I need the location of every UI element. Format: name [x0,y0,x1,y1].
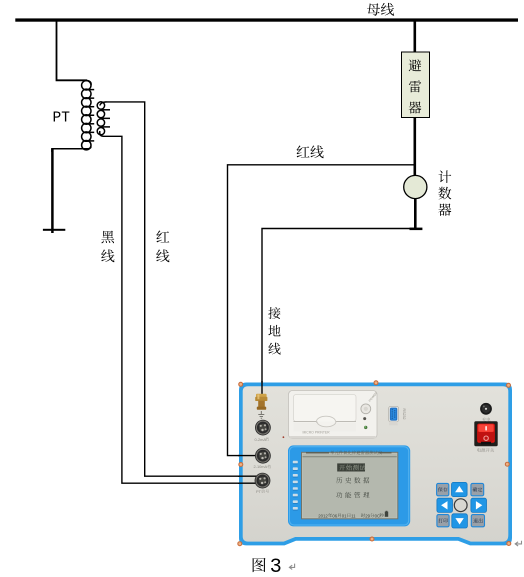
svg-text:PT: PT [53,111,71,127]
label 避雷器 [409,59,422,113]
ground mark under terminal [258,411,264,418]
terminal 0-2mA [255,420,271,436]
indicator dot [283,436,285,438]
wire red 红线 (counter top junction to 2-10mA terminal) [228,165,415,456]
LCD menu item 功能管理 [336,492,369,498]
LCD menu item 历史数据 [336,477,369,483]
PT transformer primary winding [82,80,95,149]
svg-text:11: 11 [351,513,356,518]
PT transformer secondary winding [97,102,110,137]
wire PT primary to ground [52,149,88,233]
counter bottom stub [410,228,423,231]
power switch 电源开关 [474,421,497,446]
wire red (PT secondary top to PT信号 terminal) [106,102,259,476]
wire arrester to counter [413,118,416,177]
label 0-2mA档 [255,437,269,442]
svg-text:3: 3 [270,556,282,577]
LCD menu item selected 开始测试 [337,463,366,471]
tester instrument panel [239,383,512,546]
svg-text:RS232: RS232 [402,409,406,420]
wire ground 接地线 (counter bottom to ground terminal) [262,229,414,395]
svg-text:06: 06 [332,513,337,518]
counter 计数器 [404,175,427,198]
svg-text:2012: 2012 [318,513,328,518]
caption 图 3 [253,556,282,577]
paragraph mark after caption [289,564,294,570]
svg-text:PT: PT [256,489,262,494]
LCD status line (date/time) [318,511,388,519]
svg-text:0-2mA: 0-2mA [255,437,267,442]
keypad [437,482,487,528]
wire black (PT secondary bottom to PT信号 terminal) [103,136,259,483]
arrester 避雷器 [402,52,430,118]
label 2-10mA档 [254,464,271,469]
keypad center circle [454,499,467,512]
printer [289,391,379,439]
wire leads over panel [238,381,262,483]
label 母线 (bus) [367,3,394,16]
wire counter bottom [414,199,417,229]
terminal PT信号 [255,473,271,489]
label 电源开关 [477,448,494,452]
label 接地线 [268,307,280,355]
wire bus to arrester [413,22,416,53]
wire bus to PT primary [57,22,88,81]
svg-text:2-10mA: 2-10mA [254,464,268,469]
label 红线 horizontal red wire [297,145,324,158]
label 计数器 [438,170,451,215]
svg-text:01: 01 [342,513,347,518]
label 充电 [482,417,490,421]
charge jack 充电 [480,403,492,415]
svg-text:MICRO PRINTER: MICRO PRINTER [303,431,331,435]
label PT信号 [256,489,269,494]
label 红线 vertical red wire [156,230,169,262]
LCD title line [303,451,397,457]
LCD display assembly [288,445,410,526]
panel corner screws [237,380,511,546]
ground terminal (gold binding post) [255,394,267,410]
label 黑线 black wire [101,231,114,263]
LCD side strip [293,461,298,511]
bus bar (horizontal power bus) [15,18,518,21]
terminal 2-10mA [255,448,271,464]
ground symbol [43,229,65,231]
paragraph mark right edge [515,541,521,546]
RS232 serial port [389,406,406,425]
svg-text:0C: 0C [375,513,381,518]
svg-text:29: 29 [365,513,370,518]
